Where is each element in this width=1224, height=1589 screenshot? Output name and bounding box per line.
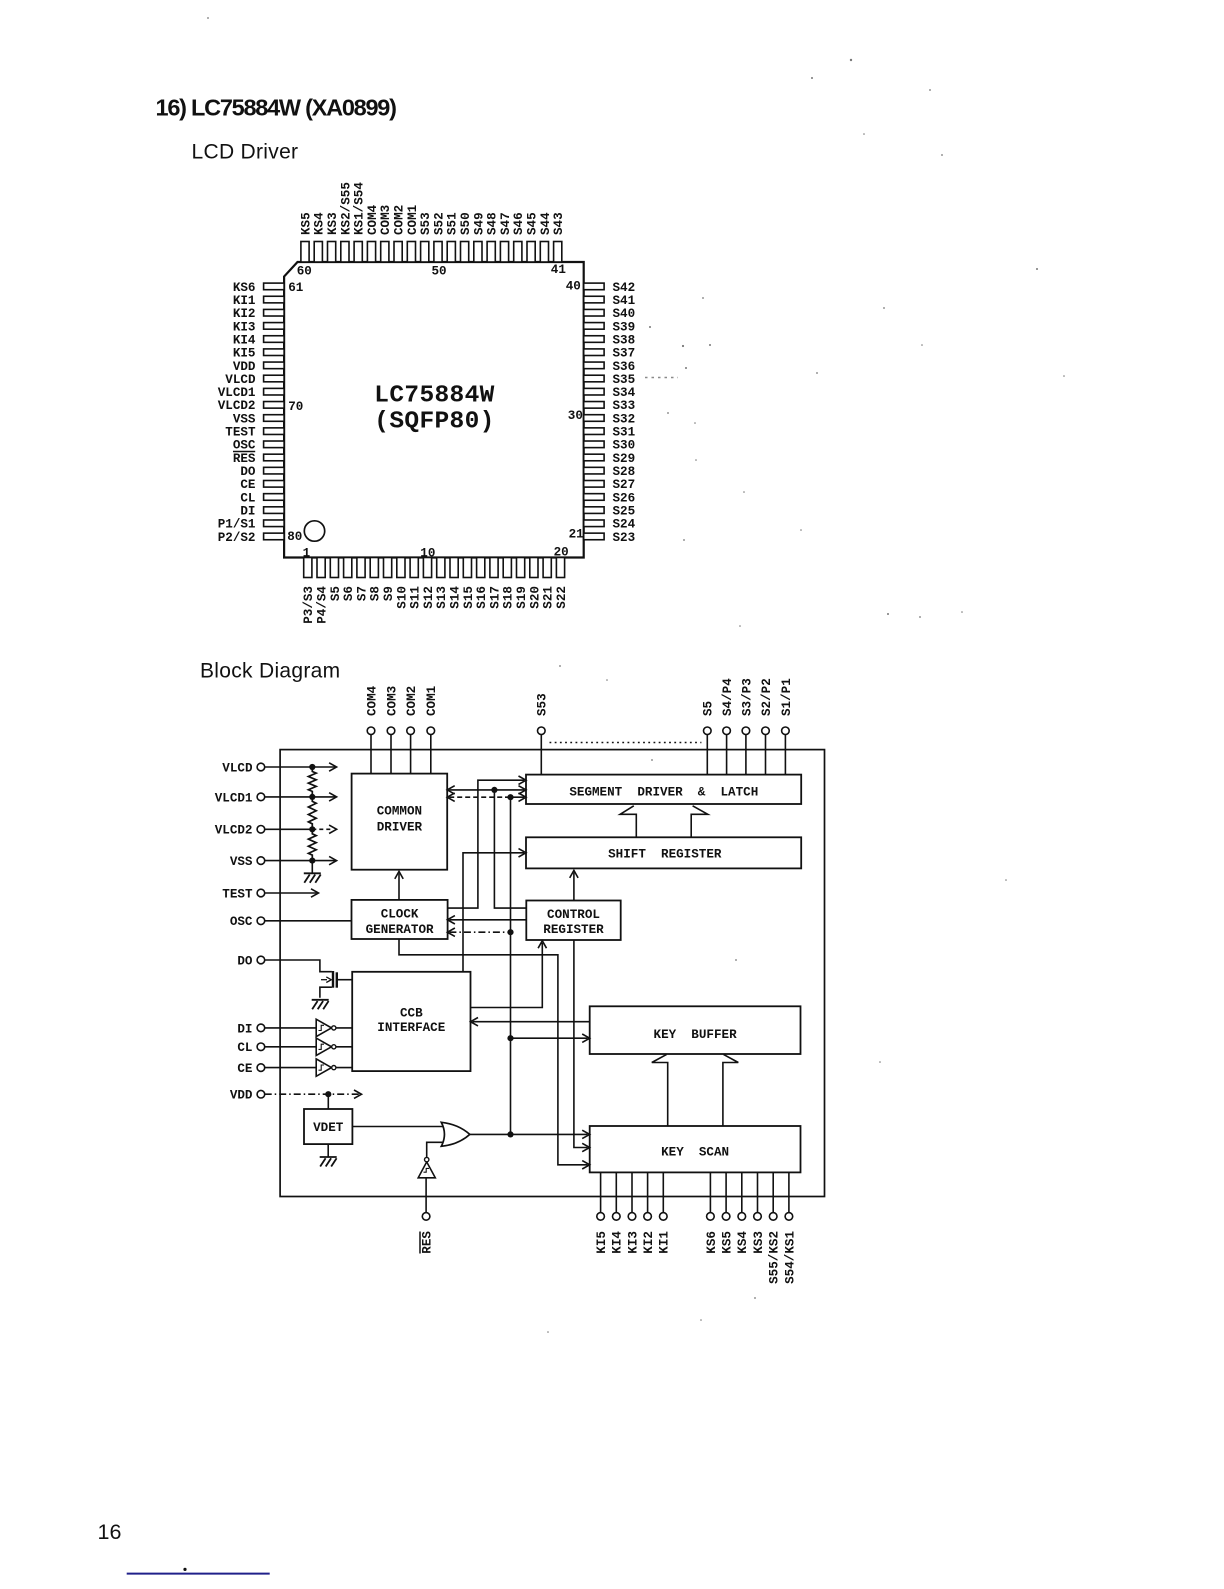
pin 3 S5 (bottom) [329, 558, 343, 602]
svg-text:KI1: KI1 [233, 294, 256, 308]
resistor R3 VLCD2-VSS [308, 829, 316, 860]
svg-text:VLCD1: VLCD1 [218, 386, 256, 400]
node VSS [230, 855, 265, 869]
chip body LC75884W SQFP80 [284, 262, 584, 558]
pin 63 KI2 (left) [233, 307, 284, 321]
svg-text:KS4: KS4 [313, 212, 327, 235]
svg-text:16) LC75884W (XA0899): 16) LC75884W (XA0899) [156, 95, 397, 121]
svg-text:COM4: COM4 [366, 204, 380, 235]
pin 7 S9 (bottom) [382, 558, 396, 602]
pin 1 index circle [304, 521, 324, 541]
wire VDD to VDET [327, 1094, 329, 1109]
pin 8 S10 (bottom) [395, 558, 409, 609]
pin 36 S38 (right) [584, 333, 635, 347]
wire common/segment bidir 1 [449, 789, 524, 791]
block KEY BUFFER [590, 1006, 801, 1054]
wire key scan to KI1 [662, 1172, 664, 1212]
pin 78 DI (left) [240, 505, 284, 519]
pin 32 S34 (right) [584, 386, 636, 400]
svg-text:SEGMENT DRIVER & LATCH: SEGMENT DRIVER & LATCH [569, 786, 758, 800]
pin 11 S13 (bottom) [435, 558, 449, 609]
pin 5 S7 (bottom) [355, 558, 369, 602]
pin 45 S47 (top) [499, 212, 513, 262]
wire key scan to KS6 [709, 1172, 711, 1212]
pin 22 S24 (right) [584, 518, 636, 532]
svg-text:S6: S6 [342, 586, 356, 601]
wire common/segment bidir 2 (dashed) [449, 796, 505, 798]
pin 47 S49 (top) [472, 212, 486, 262]
svg-text:41: 41 [551, 263, 567, 277]
svg-text:KS5: KS5 [721, 1231, 735, 1254]
svg-text:DO: DO [240, 465, 256, 479]
svg-text:10: 10 [420, 547, 435, 561]
svg-text:60: 60 [297, 265, 312, 279]
junction VSS [309, 858, 315, 864]
svg-text:S31: S31 [613, 426, 636, 440]
svg-text:S8: S8 [369, 586, 383, 601]
svg-text:VDD: VDD [233, 360, 256, 374]
buffer CE (schmitt) [316, 1059, 336, 1076]
svg-text:40: 40 [566, 280, 581, 294]
pin 30 S32 (right) [584, 412, 635, 426]
wire S1/P1 to segment driver [784, 735, 786, 775]
svg-text:S24: S24 [613, 518, 636, 532]
wire key scan to S54/KS1 [788, 1172, 790, 1212]
wire CCB to control register [471, 943, 543, 1008]
svg-text:S55/KS2: S55/KS2 [768, 1231, 782, 1284]
wire RES to inverter [425, 1178, 427, 1213]
svg-text:20: 20 [554, 545, 569, 559]
pin 39 S41 (right) [584, 294, 636, 308]
wire S4/P4 to segment driver [726, 735, 728, 775]
junction OR output / D bus [507, 1131, 513, 1137]
wire key scan to S55/KS2 [772, 1172, 774, 1212]
svg-text:S9: S9 [382, 586, 396, 601]
node KS3 [752, 1213, 766, 1254]
node CL [237, 1041, 264, 1055]
wire key scan to KS5 [725, 1172, 727, 1212]
pin 2 P4/S4 (bottom) [316, 558, 330, 624]
svg-text:S4/P4: S4/P4 [721, 678, 735, 716]
pin 38 S40 (right) [584, 307, 635, 321]
pin 34 S36 (right) [584, 360, 635, 374]
wire control reg to clock gen [449, 919, 526, 921]
node COM4 [365, 685, 379, 734]
svg-text:S41: S41 [613, 294, 636, 308]
pin 24 S26 (right) [584, 491, 635, 505]
wire TEST [265, 892, 317, 894]
pin 53 COM2 (top) [393, 205, 407, 262]
svg-text:S44: S44 [539, 212, 553, 235]
node CE [237, 1062, 264, 1076]
node TEST [222, 887, 264, 901]
pin 74 RES (left) [233, 451, 284, 465]
node KS4 [736, 1213, 750, 1254]
svg-text:S2/P2: S2/P2 [760, 678, 774, 716]
pin 80 P2/S2 (left) [218, 531, 284, 545]
svg-text:KS6: KS6 [233, 281, 256, 295]
wire OR gate to KEY SCAN [470, 1133, 588, 1135]
block VDET [304, 1109, 352, 1144]
pin 13 S15 (bottom) [462, 558, 476, 609]
pin 49 S51 (top) [446, 212, 460, 262]
svg-text:VLCD1: VLCD1 [215, 791, 253, 805]
footer blue rule [127, 1573, 270, 1575]
svg-text:CL: CL [240, 491, 255, 505]
wire CE [265, 1067, 317, 1069]
pin 46 S48 (top) [486, 212, 500, 262]
pin 55 COM4 (top) [366, 204, 380, 262]
node S55/KS2 [768, 1213, 782, 1284]
svg-text:KI3: KI3 [233, 320, 256, 334]
wire VDET to OR gate [352, 1126, 443, 1128]
wire OSC to clock generator [265, 920, 352, 922]
pin 72 TEST (left) [225, 426, 284, 440]
svg-text:S34: S34 [613, 386, 636, 400]
svg-text:70: 70 [288, 400, 303, 414]
node S5 [702, 701, 716, 735]
junction VLCD [309, 764, 315, 770]
wire D to clock gen (dash-dot) [449, 931, 510, 933]
pin 41 S43 (top) [552, 212, 566, 262]
svg-text:S35: S35 [613, 373, 636, 387]
pin 37 S39 (right) [584, 320, 635, 334]
svg-text:S54/KS1: S54/KS1 [783, 1231, 797, 1284]
node KI4 [611, 1213, 625, 1254]
ground VSS [304, 872, 321, 874]
node KI3 [626, 1213, 640, 1254]
pin 56 KS1/S54 (top) [353, 182, 367, 262]
svg-text:21: 21 [569, 528, 585, 542]
wire B to control register [494, 790, 526, 908]
svg-text:TEST: TEST [222, 887, 253, 901]
svg-text:S37: S37 [613, 347, 636, 361]
pin 70 VLCD2 (left) [218, 399, 284, 413]
svg-text:(SQFP80): (SQFP80) [374, 409, 494, 436]
wire S2/P2 to segment driver [765, 735, 767, 775]
svg-text:VDET: VDET [313, 1121, 344, 1135]
node VLCD1 [215, 791, 265, 805]
pin 79 P1/S1 (left) [218, 518, 284, 532]
svg-text:KI5: KI5 [595, 1231, 609, 1254]
block CLOCK GENERATOR [352, 900, 448, 939]
svg-text:CCB: CCB [400, 1006, 423, 1020]
pin 27 S29 (right) [584, 452, 635, 466]
pin 18 S20 (bottom) [528, 558, 542, 609]
pin 75 DO (left) [240, 465, 284, 479]
svg-text:S5: S5 [329, 586, 343, 601]
pin 76 CE (left) [240, 478, 284, 492]
svg-text:S17: S17 [488, 586, 502, 609]
node S54/KS1 [783, 1213, 797, 1284]
svg-text:CLOCK: CLOCK [381, 908, 419, 922]
wire COM1 to common driver [430, 735, 432, 774]
pin 14 S16 (bottom) [475, 558, 489, 609]
svg-text:VLCD2: VLCD2 [218, 399, 256, 413]
svg-text:S12: S12 [422, 586, 436, 609]
node KI1 [658, 1213, 672, 1254]
svg-text:S5: S5 [702, 701, 716, 716]
wire DI [265, 1027, 317, 1029]
svg-text:KS5: KS5 [299, 212, 313, 235]
wire D to key buffer [511, 1037, 588, 1039]
pin 65 KI4 (left) [233, 333, 284, 347]
wire key scan to KI5 [600, 1172, 602, 1212]
wire DI buffer to CCB [336, 1027, 352, 1029]
transistor Q1 output MOSFET [320, 971, 352, 998]
svg-text:COM2: COM2 [405, 686, 419, 716]
svg-text:DI: DI [237, 1022, 252, 1036]
pin 67 VDD (left) [233, 360, 284, 374]
svg-text:LC75884W: LC75884W [374, 383, 494, 410]
pin 26 S28 (right) [584, 465, 635, 479]
pin 10 S12 (bottom) [422, 558, 436, 609]
junction VLCD1 [309, 794, 315, 800]
junction VLCD2 [309, 826, 315, 832]
svg-text:S52: S52 [432, 212, 446, 235]
svg-text:KS2/S55: KS2/S55 [339, 182, 353, 235]
svg-text:S39: S39 [613, 320, 636, 334]
svg-text:INTERFACE: INTERFACE [377, 1021, 445, 1035]
svg-text:S43: S43 [552, 212, 566, 235]
pin 15 S17 (bottom) [488, 558, 502, 609]
wire key scan to KS3 [757, 1172, 759, 1212]
buffer CL (schmitt) [316, 1038, 336, 1055]
resistor R1 VLCD-VLCD1 [308, 767, 316, 797]
svg-text:VSS: VSS [233, 412, 256, 426]
wire control reg to shift register [573, 872, 575, 900]
node COM2 [405, 686, 419, 735]
svg-text:61: 61 [288, 281, 304, 295]
wire bus D vertical [510, 797, 512, 1134]
svg-text:P3/S3: P3/S3 [302, 586, 316, 624]
svg-text:S21: S21 [542, 586, 556, 609]
scan speckles (noise) [207, 17, 1065, 1333]
svg-text:CL: CL [237, 1041, 252, 1055]
svg-text:S10: S10 [395, 586, 409, 609]
pin 60 KS5 (top) [299, 212, 313, 262]
svg-text:KI2: KI2 [642, 1231, 656, 1254]
junction D top [507, 794, 513, 800]
pin 23 S25 (right) [584, 505, 635, 519]
svg-text:S29: S29 [613, 452, 636, 466]
pin 54 COM3 (top) [379, 205, 393, 262]
svg-text:LCD Driver: LCD Driver [192, 141, 299, 164]
wire VLCD1 [265, 796, 335, 798]
node KI2 [642, 1213, 656, 1254]
pin 17 S19 (bottom) [515, 558, 529, 609]
node DI [237, 1022, 264, 1036]
pin 35 S37 (right) [584, 347, 635, 361]
wire key scan to KI3 [631, 1172, 633, 1212]
svg-text:P4/S4: P4/S4 [316, 586, 330, 624]
pin 6 S8 (bottom) [369, 558, 383, 602]
wire clock gen to common driver [398, 874, 400, 900]
resistor R2 VLCD1-VLCD2 [308, 797, 316, 829]
svg-text:COM2: COM2 [393, 205, 407, 235]
svg-text:S45: S45 [526, 212, 540, 235]
node DO [237, 954, 264, 968]
svg-text:16: 16 [98, 1520, 122, 1544]
node COM3 [385, 686, 399, 735]
pin 16 S18 (bottom) [502, 558, 516, 609]
svg-text:S26: S26 [613, 491, 636, 505]
svg-text:S25: S25 [613, 505, 636, 519]
node RES [420, 1213, 435, 1254]
wire CL [265, 1046, 317, 1048]
wire clock gen to segment driver (A) [448, 780, 524, 908]
pin 73 OSC (left) [233, 439, 284, 453]
svg-text:S30: S30 [613, 439, 636, 453]
pin 52 COM1 (top) [406, 204, 420, 262]
svg-text:S7: S7 [355, 586, 369, 601]
pin 29 S31 (right) [584, 426, 636, 440]
svg-text:TEST: TEST [225, 426, 256, 440]
svg-text:DRIVER: DRIVER [377, 821, 423, 835]
node COM1 [425, 685, 439, 734]
OR gate U1 [441, 1122, 470, 1146]
node VLCD2 [215, 824, 265, 838]
svg-text:SHIFT REGISTER: SHIFT REGISTER [608, 847, 722, 861]
wire COM3 to common driver [390, 735, 392, 774]
svg-text:S28: S28 [613, 465, 636, 479]
pin 62 KI1 (left) [233, 294, 284, 308]
node KS5 [721, 1213, 735, 1254]
svg-text:S50: S50 [459, 212, 473, 235]
wire VLCD2 [265, 828, 313, 830]
block COMMON DRIVER [352, 774, 448, 870]
svg-text:GENERATOR: GENERATOR [366, 923, 434, 937]
svg-text:COM4: COM4 [365, 685, 379, 716]
svg-text:S20: S20 [528, 586, 542, 609]
inverter U2 (schmitt, RES) [418, 1157, 435, 1177]
pin 59 KS4 (top) [313, 212, 327, 262]
pin 69 VLCD1 (left) [218, 386, 284, 400]
ground VDET [320, 1156, 337, 1158]
wire S5 to segment driver [706, 735, 708, 775]
svg-text:KEY BUFFER: KEY BUFFER [654, 1028, 738, 1042]
pin 42 S44 (top) [539, 212, 553, 262]
wire CE buffer to CCB [336, 1067, 352, 1069]
block SHIFT REGISTER [526, 837, 801, 868]
pin 40 S42 (right) [584, 281, 635, 295]
pin 68 VLCD (left) [225, 373, 284, 387]
node S2/P2 [760, 678, 774, 734]
svg-text:Block Diagram: Block Diagram [200, 659, 340, 682]
svg-text:S49: S49 [472, 212, 486, 235]
svg-text:S19: S19 [515, 586, 529, 609]
svg-text:P1/S1: P1/S1 [218, 518, 256, 532]
node S1/P1 [780, 678, 794, 735]
svg-text:S16: S16 [475, 586, 489, 609]
wire VDET to ground [327, 1144, 329, 1157]
svg-text:VDD: VDD [230, 1089, 253, 1103]
wire COM2 to common driver [410, 735, 412, 774]
svg-text:S46: S46 [512, 212, 526, 235]
node S4/P4 [721, 678, 735, 735]
svg-text:P2/S2: P2/S2 [218, 531, 256, 545]
svg-text:S32: S32 [613, 412, 636, 426]
svg-text:S51: S51 [446, 212, 460, 235]
svg-text:S23: S23 [613, 531, 636, 545]
pin 48 S50 (top) [459, 212, 473, 262]
pin 57 KS2/S55 (top) [339, 182, 353, 262]
svg-text:CONTROL: CONTROL [547, 908, 600, 922]
svg-text:1: 1 [303, 547, 311, 561]
wire CL buffer to CCB [336, 1046, 352, 1048]
pin 61 KS6 (left) [233, 281, 284, 295]
svg-text:KI3: KI3 [626, 1231, 640, 1254]
svg-text:80: 80 [287, 530, 302, 544]
svg-text:COM3: COM3 [379, 205, 393, 235]
pin 71 VSS (left) [233, 412, 284, 426]
wire key buffer to CCB [473, 1021, 590, 1023]
wire control reg to key scan (F) [574, 940, 588, 1148]
junction D key buffer [507, 1035, 513, 1041]
wire key scan to KS4 [741, 1172, 743, 1212]
wire VDD [265, 1093, 360, 1095]
pin 20 S22 (bottom) [555, 558, 569, 609]
svg-text:S13: S13 [435, 586, 449, 609]
svg-text:S53: S53 [419, 212, 433, 235]
svg-text:S18: S18 [502, 586, 516, 609]
svg-text:DO: DO [237, 954, 253, 968]
pin 51 S53 (top) [419, 212, 433, 262]
svg-text:S14: S14 [449, 586, 463, 609]
wire key scan to KI4 [615, 1172, 617, 1212]
pin 33 S35 (right) [584, 373, 635, 387]
svg-text:VSS: VSS [230, 855, 253, 869]
node VLCD [222, 761, 264, 775]
svg-text:CE: CE [237, 1062, 253, 1076]
wire inverter to OR gate [427, 1142, 443, 1157]
pin 77 CL (left) [240, 491, 284, 505]
node S3/P3 [740, 678, 754, 734]
svg-text:KS6: KS6 [705, 1231, 719, 1254]
junction VDD [325, 1091, 331, 1097]
svg-text:S11: S11 [409, 586, 423, 609]
bus arrow key scan to key buffer [652, 1054, 739, 1126]
svg-text:KS1/S54: KS1/S54 [353, 182, 367, 235]
block SEGMENT DRIVER & LATCH [526, 775, 801, 804]
junction D clock [507, 929, 513, 935]
svg-text:COM1: COM1 [406, 204, 420, 235]
wire S53 to segment driver [540, 735, 542, 775]
svg-text:S42: S42 [613, 281, 636, 295]
svg-text:S38: S38 [613, 333, 636, 347]
pin 66 KI5 (left) [233, 347, 284, 361]
pin 43 S45 (top) [526, 212, 540, 262]
node OSC [230, 915, 265, 929]
pin 50 S52 (top) [432, 212, 446, 262]
svg-text:RES: RES [421, 1231, 435, 1254]
junction B top [491, 787, 497, 793]
svg-text:VLCD2: VLCD2 [215, 824, 253, 838]
svg-text:30: 30 [568, 409, 583, 423]
svg-text:KI5: KI5 [233, 347, 256, 361]
pin 12 S14 (bottom) [449, 558, 463, 609]
pin 4 S6 (bottom) [342, 558, 356, 602]
svg-text:S1/P1: S1/P1 [780, 678, 794, 716]
wire CCB to shift register (C) [463, 853, 524, 972]
svg-text:VLCD: VLCD [222, 761, 253, 775]
svg-text:50: 50 [432, 265, 447, 279]
dotted ellipsis S53..S5 [550, 742, 702, 744]
pin 64 KI3 (left) [233, 320, 284, 334]
svg-text:S53: S53 [536, 693, 550, 716]
pin 1 P3/S3 (bottom) [302, 558, 316, 624]
svg-text:COM3: COM3 [385, 686, 399, 716]
